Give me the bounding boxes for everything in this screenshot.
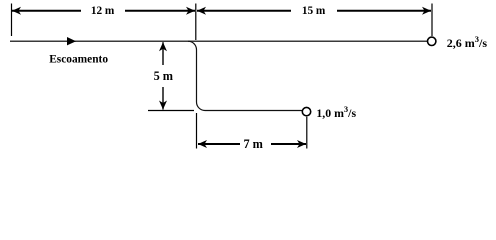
dimension 5 m xyxy=(150,42,176,109)
main pipe wire xyxy=(10,40,428,42)
extension line right xyxy=(431,4,433,37)
extension line 7 m left xyxy=(196,113,198,149)
dimension 15 m xyxy=(197,4,431,17)
node outlet 1,0 xyxy=(302,107,310,115)
svg-text:15 m: 15 m xyxy=(302,5,326,17)
tick / junction extension line xyxy=(195,4,197,41)
svg-text:12 m: 12 m xyxy=(91,5,115,17)
svg-text:7 m: 7 m xyxy=(243,137,263,151)
flow arrow xyxy=(67,37,76,45)
svg-text:1,0 m3/s: 1,0 m3/s xyxy=(316,104,356,120)
extension tick for 5 m xyxy=(148,110,194,112)
svg-text:2,6 m3/s: 2,6 m3/s xyxy=(447,34,488,50)
dimension 7 m xyxy=(198,137,306,151)
label 2,6 m3/s xyxy=(447,34,488,50)
branch pipe wire xyxy=(188,41,303,110)
svg-text:Escoamento: Escoamento xyxy=(49,53,108,65)
label 1,0 m3/s xyxy=(316,104,356,120)
node outlet 2,6 xyxy=(428,37,436,45)
dimension 12 m xyxy=(12,4,195,17)
extension line left xyxy=(11,4,13,37)
extension line 7 m right xyxy=(306,117,308,149)
label Escoamento xyxy=(49,53,108,65)
svg-text:5 m: 5 m xyxy=(154,69,174,83)
